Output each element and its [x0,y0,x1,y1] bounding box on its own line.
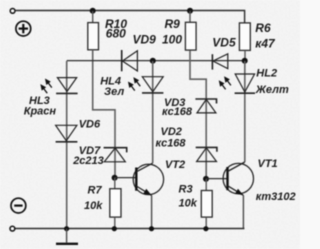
transistor VT1 [223,162,253,229]
wire R10 bottom down and jog right to VD7 [93,50,115,178]
svg-text:Красн: Красн [24,105,57,117]
junction dot mid left [150,58,156,64]
wire mid horizontal left (HL3 top to VD9) [67,60,245,62]
diode VD6 [56,125,78,142]
junction dot VD7 R7 base node [112,175,118,181]
junction dot bottom rail at R7 [112,226,117,231]
junction dot mid right [242,58,248,64]
wire base VT1 [206,178,227,180]
label VT1 kt3102 [256,158,296,203]
label HL2 Zhelt [255,67,289,96]
wire top supply rail [15,11,244,24]
junction dot bottom rail at R3 [203,226,208,231]
svg-text:VT2: VT2 [165,159,185,171]
label VT2 [165,159,185,171]
junction dot top rail at R10 [90,8,96,14]
resistor R10 [88,11,99,50]
transistor VT2 [133,163,163,229]
svg-text:10k: 10k [84,200,103,212]
wire base VT2 [115,177,137,179]
junction dot bottom rail at VT2 emitter [149,226,154,231]
svg-text:680: 680 [106,27,126,41]
resistor R6 [239,23,250,61]
ground [56,229,78,244]
svg-text:кс168: кс168 [156,137,187,149]
svg-text:HL2: HL2 [256,67,277,79]
svg-text:VD9: VD9 [133,33,157,47]
svg-text:кт3102: кт3102 [256,191,296,203]
junction dot top rail at R9 [187,8,193,14]
label VD6 [79,118,101,130]
LED HL3 [38,61,77,229]
junction dot bottom rail at VD6 branch [64,226,69,231]
label VD2 ks168 [156,126,187,150]
svg-text:2с213: 2с213 [72,155,104,167]
svg-text:R6: R6 [255,21,271,35]
label VD3 ks168 [162,97,193,118]
terminal negative input [10,226,15,231]
LED HL4 [126,61,164,163]
label VD7 2s213 [72,145,104,167]
label VD5 [212,36,236,50]
resistor R9 [185,11,196,50]
svg-text:Желт: Желт [255,84,289,96]
svg-text:кс168: кс168 [162,106,193,118]
zener diode VD7 [104,148,127,162]
svg-text:R7: R7 [88,185,103,197]
diode VD9 [122,50,138,71]
label VD9 and value 100 of R9 [133,33,183,47]
svg-text:к47: к47 [255,37,276,51]
label R7 10k [84,185,103,212]
label R10 680 [105,17,127,41]
label R6 k47 [255,21,276,50]
diode VD5 [212,54,227,70]
junction dot VD2 R3 base node [203,176,209,182]
wire bottom rail [15,228,245,230]
svg-text:VT1: VT1 [258,158,278,170]
LED HL2 [217,61,255,162]
label HL4 Zel [100,75,124,98]
label R9 [165,17,181,31]
plus symbol [16,21,31,36]
svg-text:100: 100 [162,33,182,47]
label HL3 Krasn [24,95,57,117]
label R3 10k [179,183,198,209]
zener diode VD2 [196,147,217,161]
wire R9 bottom down jog right to VD3 [190,51,206,179]
resistor R7 [110,178,121,229]
svg-text:R3: R3 [179,183,193,195]
svg-text:R9: R9 [165,17,181,31]
minus symbol [11,198,26,213]
resistor R3 [201,179,212,229]
terminal positive input [10,9,15,14]
svg-text:VD2: VD2 [161,126,182,138]
zener diode VD3 [195,99,216,113]
svg-text:VD6: VD6 [79,118,101,130]
svg-text:VD5: VD5 [212,36,236,50]
svg-text:Зел: Зел [104,86,124,98]
svg-text:10k: 10k [179,197,198,209]
